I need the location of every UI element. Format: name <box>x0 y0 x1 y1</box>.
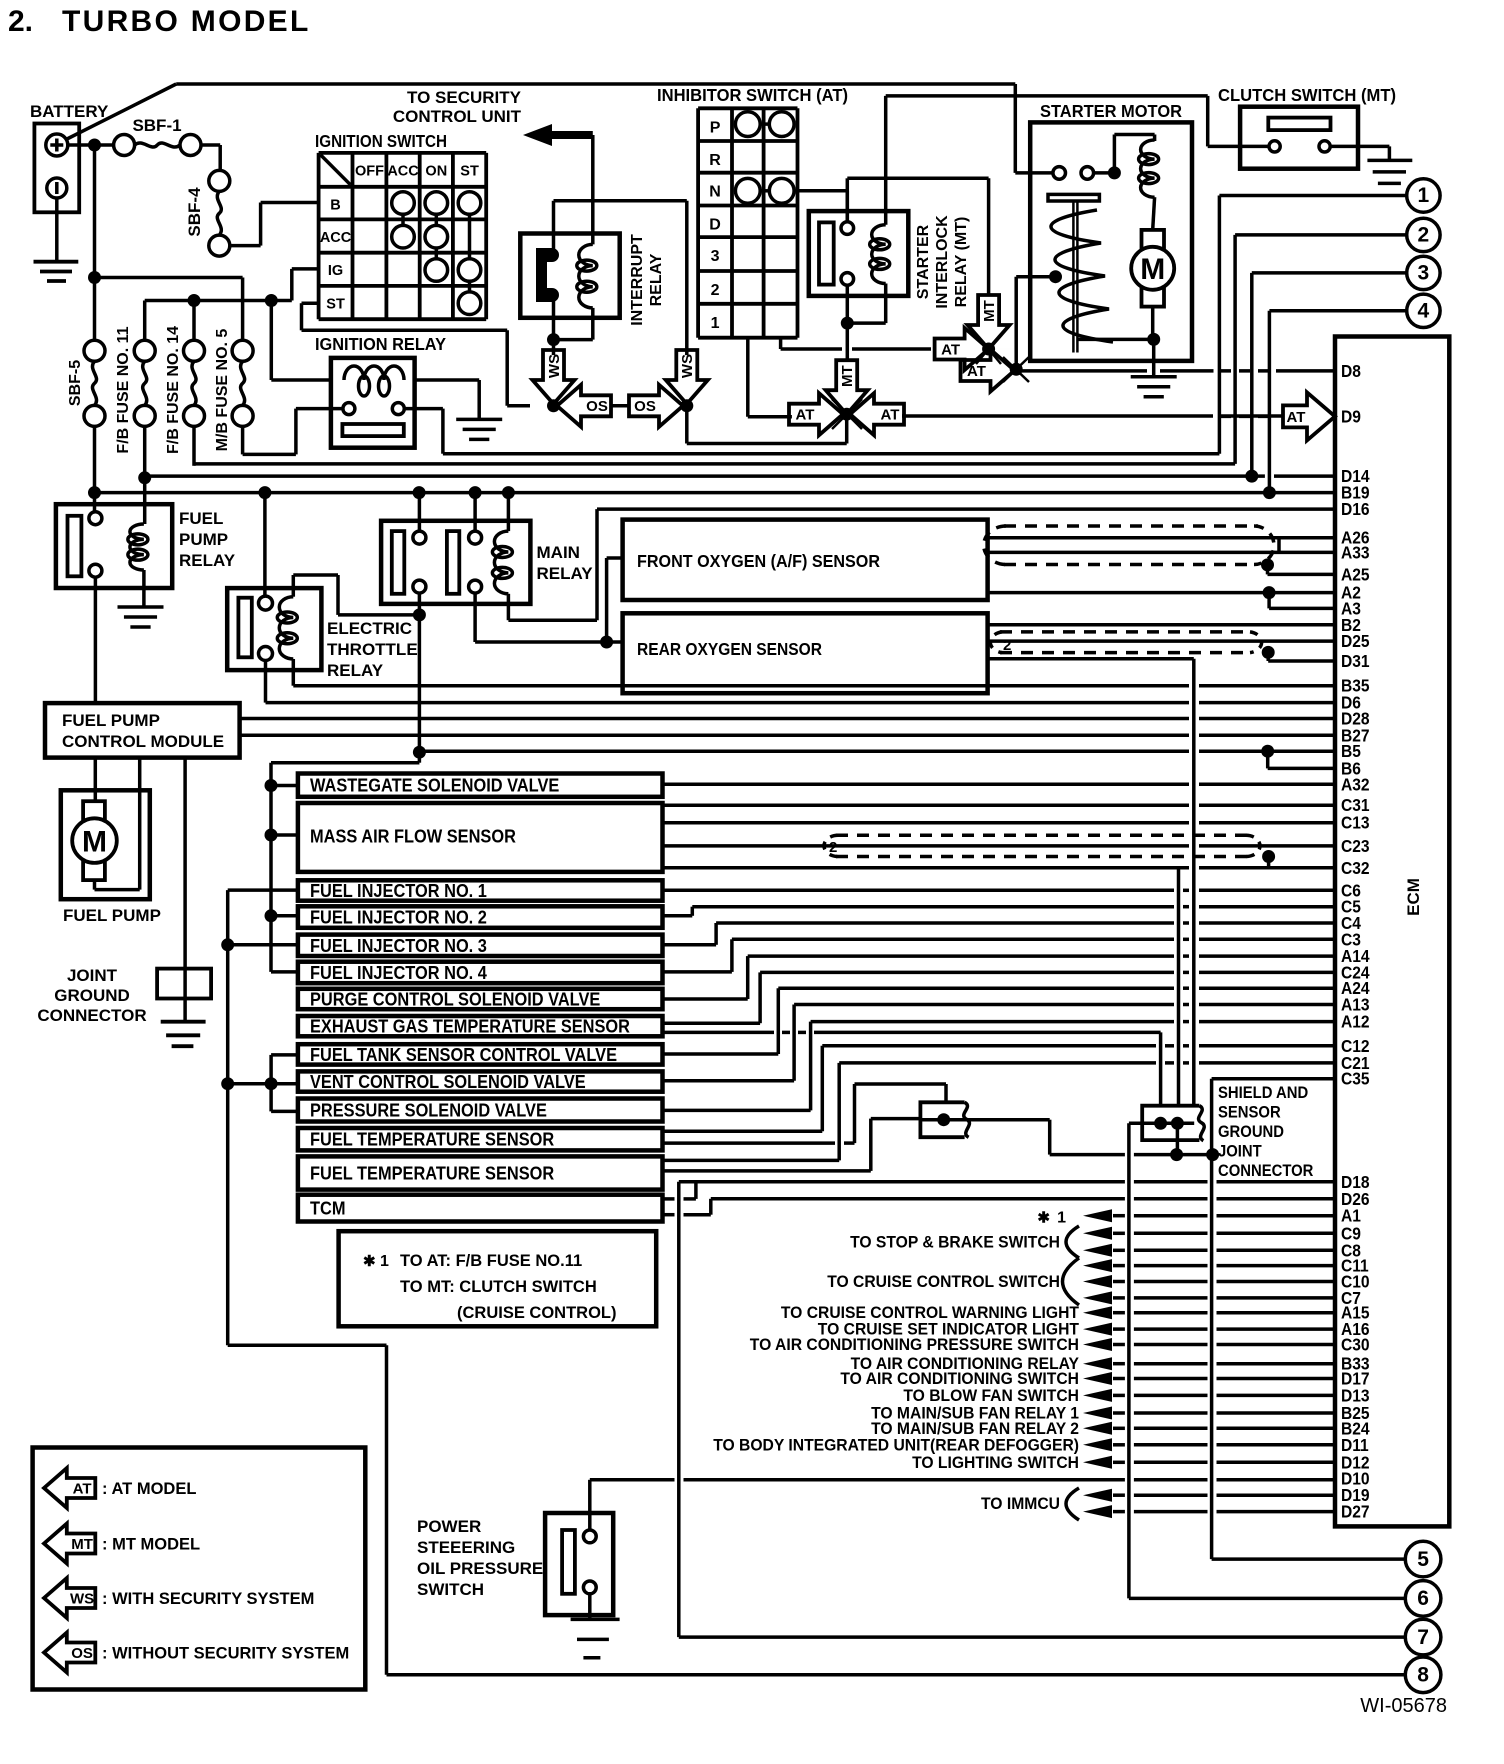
box MASS AIR FLOW SENSOR <box>298 803 663 872</box>
arrow AT at D9 <box>1283 392 1335 440</box>
electric throttle relay coil <box>279 597 293 659</box>
ECM box <box>1335 337 1449 1527</box>
svg-text:A25: A25 <box>1341 564 1370 584</box>
svg-text:M/B FUSE NO. 5: M/B FUSE NO. 5 <box>214 329 231 452</box>
wire ETR coil top to main relay c1 <box>292 575 296 597</box>
svg-text:D27: D27 <box>1341 1502 1370 1522</box>
arrow row B24 <box>1083 1422 1112 1435</box>
wire bus A <box>418 752 422 763</box>
svg-text:POWER: POWER <box>417 1517 481 1536</box>
wire B6 <box>1266 751 1270 768</box>
svg-text:4: 4 <box>1418 299 1430 322</box>
wire plunger bottom <box>1078 338 1154 342</box>
node 6 <box>1405 1581 1441 1617</box>
fuel pump <box>61 790 150 899</box>
wire SBF-4 to ignition switch B <box>230 244 261 248</box>
arrow row D13 <box>1083 1389 1112 1402</box>
box FUEL TANK SENSOR CONTROL VALVE <box>298 1044 663 1064</box>
wire right WS node down to AT cluster <box>685 406 689 444</box>
shield (rear oxygen) <box>1000 630 1252 634</box>
wire MAF to C32 and drain <box>663 866 1190 870</box>
svg-text:MASS AIR FLOW SENSOR: MASS AIR FLOW SENSOR <box>310 827 516 847</box>
svg-text:B: B <box>330 197 340 213</box>
svg-text:D16: D16 <box>1341 499 1370 519</box>
D8 dashes <box>1220 369 1276 373</box>
arrow row C10 <box>1083 1275 1112 1288</box>
svg-text:TO BODY INTEGRATED UNIT(REAR D: TO BODY INTEGRATED UNIT(REAR DEFOGGER) <box>713 1436 1079 1454</box>
svg-text:RELAY: RELAY <box>179 551 236 570</box>
main relay coil <box>494 531 508 594</box>
svg-text:D: D <box>709 217 721 234</box>
node vent <box>221 1077 234 1090</box>
wire connector2 to node 6 <box>1127 1123 1131 1598</box>
svg-text:TO CRUISE CONTROL WARNING LIGH: TO CRUISE CONTROL WARNING LIGHT <box>781 1304 1079 1322</box>
svg-text:STARTER MOTOR: STARTER MOTOR <box>1040 101 1182 121</box>
svg-text:MT: MT <box>839 365 856 387</box>
wires main relay feeds <box>418 493 422 531</box>
wire ignition switch ST row <box>302 301 319 305</box>
wire PS switch to D10 <box>588 1480 592 1530</box>
box FUEL INJECTOR NO. 4 <box>298 962 663 984</box>
svg-text:CONTROL MODULE: CONTROL MODULE <box>62 732 224 751</box>
electric throttle relay <box>227 588 321 670</box>
arrow row A1 <box>1083 1209 1112 1222</box>
svg-text:INTERRUPT: INTERRUPT <box>629 234 646 326</box>
arrow OS (left pointing) <box>557 385 611 427</box>
svg-text:RELAY: RELAY <box>648 253 665 306</box>
svg-text:AT: AT <box>941 341 960 358</box>
wire D25 <box>988 639 1335 643</box>
svg-text:SHIELD AND: SHIELD AND <box>1218 1084 1308 1102</box>
wire MAF to C31 <box>663 803 1190 807</box>
svg-text:TO AIR CONDITIONING PRESSURE S: TO AIR CONDITIONING PRESSURE SWITCH <box>750 1336 1079 1354</box>
wire battery to M/B fuse <box>95 276 243 280</box>
svg-text:P: P <box>710 119 721 136</box>
svg-text:C30: C30 <box>1341 1335 1370 1355</box>
box PURGE CONTROL SOLENOID VALVE <box>298 989 663 1009</box>
node 8 <box>1405 1657 1441 1693</box>
svg-text:2: 2 <box>1418 223 1430 246</box>
wire F/B11 to fuel pump relay coil / D14 <box>143 426 147 524</box>
arrow row C8 <box>1083 1244 1112 1257</box>
svg-text:C32: C32 <box>1341 858 1370 878</box>
wire D18 <box>679 1180 1125 1184</box>
arrow row D27 <box>1083 1505 1112 1518</box>
svg-text:M: M <box>82 826 107 859</box>
arrow to security control unit <box>523 124 593 146</box>
box TCM <box>298 1195 663 1222</box>
svg-text:CLUTCH SWITCH (MT): CLUTCH SWITCH (MT) <box>1218 85 1396 105</box>
wire ETR coil bottom to B35 <box>292 659 296 686</box>
svg-text:TO IMMCU: TO IMMCU <box>981 1495 1060 1513</box>
arrow row D11 <box>1083 1438 1112 1451</box>
svg-text:TO MAIN/SUB FAN RELAY 2: TO MAIN/SUB FAN RELAY 2 <box>871 1420 1079 1438</box>
wire inhibitor col3 to AT arrow (D1) <box>779 338 783 349</box>
svg-text:AT: AT <box>1287 409 1306 426</box>
svg-text:STARTER: STARTER <box>915 224 932 299</box>
wire bus B <box>226 890 230 1345</box>
wire relay coil to ground <box>142 570 146 607</box>
svg-text:D25: D25 <box>1341 631 1370 651</box>
box FUEL TEMPERATURE SENSOR <box>298 1128 663 1150</box>
svg-text:3: 3 <box>711 248 720 265</box>
box WASTEGATE SOLENOID VALVE <box>298 774 663 797</box>
wire injector1 to C6 <box>663 889 1175 893</box>
svg-text:FUEL INJECTOR NO. 2: FUEL INJECTOR NO. 2 <box>310 908 487 928</box>
svg-text:CONNECTOR: CONNECTOR <box>1218 1162 1313 1180</box>
svg-text:TO BLOW FAN SWITCH: TO BLOW FAN SWITCH <box>903 1387 1079 1405</box>
svg-text:OIL PRESSURE: OIL PRESSURE <box>417 1559 543 1578</box>
brace stop&brake <box>1066 1226 1079 1258</box>
svg-text:D31: D31 <box>1341 651 1370 671</box>
svg-text:A32: A32 <box>1341 774 1370 794</box>
legend arrow AT <box>44 1468 95 1508</box>
node 7 <box>1405 1619 1441 1655</box>
svg-text:EXHAUST GAS TEMPERATURE SENSOR: EXHAUST GAS TEMPERATURE SENSOR <box>310 1017 630 1037</box>
wire fuel temp2 line2 to wavy connector <box>663 1169 871 1173</box>
fuel pump relay <box>56 504 172 588</box>
svg-text:ST: ST <box>326 296 345 312</box>
svg-text:2: 2 <box>1003 637 1011 654</box>
wire ignition relay coil to ground <box>415 378 480 382</box>
svg-text:: AT MODEL: : AT MODEL <box>102 1480 196 1498</box>
wire M to ground <box>1151 307 1155 340</box>
interrupt relay <box>520 234 619 318</box>
wire exhaust 2nd to shield drain <box>663 1031 775 1035</box>
wire between OS arrows <box>611 404 629 408</box>
svg-text:8: 8 <box>1417 1664 1429 1687</box>
wire to node 1 <box>1219 194 1406 198</box>
wire battery vertical <box>93 145 97 340</box>
box FUEL INJECTOR NO. 2 <box>298 906 663 928</box>
shield (C23) <box>836 834 1248 838</box>
arrow MT down to D1 <box>968 295 1010 349</box>
svg-text:GROUND: GROUND <box>54 986 130 1005</box>
svg-text:FUEL INJECTOR NO. 1: FUEL INJECTOR NO. 1 <box>310 881 487 901</box>
svg-text:7: 7 <box>1417 1626 1429 1649</box>
box FUEL INJECTOR NO. 1 <box>298 880 663 900</box>
svg-text:SENSOR: SENSOR <box>1218 1104 1281 1122</box>
wire to ignition switch IG <box>290 269 294 301</box>
svg-text:REAR OXYGEN SENSOR: REAR OXYGEN SENSOR <box>637 639 822 659</box>
wire interlock contact top path <box>846 191 848 222</box>
svg-text:WS: WS <box>70 1590 94 1607</box>
svg-text:OS: OS <box>71 1645 93 1662</box>
svg-text:3: 3 <box>1418 261 1430 284</box>
svg-text:N: N <box>709 184 721 201</box>
svg-text:D9: D9 <box>1341 406 1361 426</box>
wire to node 4 <box>1269 309 1406 313</box>
arrow OS (right pointing) <box>629 385 683 427</box>
starter interlock coil <box>872 225 886 284</box>
wire battery+ to SBF-1 <box>68 143 114 147</box>
svg-text:C13: C13 <box>1341 813 1370 833</box>
wire D14 line <box>145 474 1265 478</box>
arrow AT right to D1 <box>935 328 989 370</box>
wire N row to MT arrow top <box>988 294 990 296</box>
wire MAF to C23 <box>663 844 1190 848</box>
svg-text:AT: AT <box>967 363 986 380</box>
main relay <box>381 521 530 604</box>
svg-text:1: 1 <box>1057 1210 1066 1227</box>
svg-text:WI-05678: WI-05678 <box>1360 1695 1447 1717</box>
svg-text:CONNECTOR: CONNECTOR <box>37 1006 146 1025</box>
node 5 <box>1405 1541 1441 1577</box>
wire main relay c2 to oxygen sensors <box>473 593 477 642</box>
wire module to B27 <box>240 734 1189 738</box>
legend arrow MT <box>44 1524 95 1564</box>
wire module to D28 <box>240 717 1189 721</box>
svg-text:INHIBITOR SWITCH (AT): INHIBITOR SWITCH (AT) <box>657 85 848 105</box>
starter plunger T-bar <box>1048 194 1099 201</box>
svg-text:AT: AT <box>73 1480 92 1497</box>
wire wavy1 out right <box>944 1118 1050 1122</box>
svg-text:ST: ST <box>460 163 479 179</box>
arrow row B25 <box>1083 1407 1112 1420</box>
svg-text:RELAY: RELAY <box>537 564 594 583</box>
svg-text:IGNITION RELAY: IGNITION RELAY <box>315 334 446 354</box>
starter return spring <box>1051 210 1113 342</box>
wire TCM stub2 <box>663 1213 675 1217</box>
arrow WS (right) <box>666 350 708 404</box>
svg-text:BATTERY: BATTERY <box>30 102 109 121</box>
svg-text:6: 6 <box>1417 1587 1429 1610</box>
svg-text:CONTROL UNIT: CONTROL UNIT <box>393 107 522 126</box>
rear oxygen sensor <box>623 613 988 693</box>
wire bus B to node 8 <box>228 1344 387 1348</box>
wire D26 <box>711 1197 1125 1201</box>
svg-text:TO MT: CLUTCH SWITCH: TO MT: CLUTCH SWITCH <box>400 1278 597 1296</box>
wire module to fuel pump M bottom <box>138 758 142 890</box>
wire main relay coil to D16 <box>507 594 511 620</box>
svg-text:: WITH SECURITY SYSTEM: : WITH SECURITY SYSTEM <box>102 1590 314 1608</box>
node injector3 <box>221 938 234 951</box>
svg-text:THROTTLE: THROTTLE <box>327 640 418 659</box>
wire contact top over to MT arrow <box>847 177 988 181</box>
node wastegate <box>265 779 278 792</box>
wire inhibitor N row to starter interlock contact <box>794 189 847 193</box>
interrupt relay coil <box>579 244 593 308</box>
arrow row A15 <box>1083 1306 1112 1319</box>
svg-text:5: 5 <box>1417 1548 1429 1571</box>
svg-text:C23: C23 <box>1341 836 1370 856</box>
svg-text:1: 1 <box>1418 184 1430 207</box>
svg-text:RELAY (MT): RELAY (MT) <box>953 217 970 308</box>
wire injector2 to C5 <box>663 914 693 918</box>
wire module to joint ground <box>183 758 187 1022</box>
svg-text:MT: MT <box>71 1536 93 1553</box>
arrow row D19 <box>1083 1489 1112 1502</box>
connector (wavy) 1 <box>920 1102 964 1137</box>
box FUEL INJECTOR NO. 3 <box>298 935 663 956</box>
wire D18 to node 7 <box>677 1182 681 1637</box>
wire to ignition relay coil <box>270 301 274 381</box>
svg-text:OFF: OFF <box>355 163 384 179</box>
svg-text:TO AIR CONDITIONING SWITCH: TO AIR CONDITIONING SWITCH <box>840 1370 1079 1388</box>
wire fuse feed bus <box>145 299 292 303</box>
svg-text:FUEL TEMPERATURE SENSOR: FUEL TEMPERATURE SENSOR <box>310 1130 554 1150</box>
svg-text:MT: MT <box>981 300 998 322</box>
wire ETR contact top to B19 <box>263 493 267 596</box>
starter contacts <box>1015 171 1053 175</box>
box PRESSURE SOLENOID VALVE <box>298 1099 663 1122</box>
svg-text:SBF-4: SBF-4 <box>185 187 204 237</box>
arrow row C7 <box>1083 1291 1112 1304</box>
svg-text:MAIN: MAIN <box>537 543 580 562</box>
svg-text:SBF-5: SBF-5 <box>67 360 84 406</box>
wire B2 <box>988 623 1335 627</box>
svg-text:AT: AT <box>796 407 815 424</box>
legend arrow OS <box>44 1633 95 1673</box>
svg-text:ECM: ECM <box>1404 878 1423 916</box>
node injector2 <box>265 909 278 922</box>
node solenoid <box>1108 166 1121 179</box>
node injector4 <box>271 970 298 974</box>
node D1 with cross <box>982 343 995 356</box>
svg-text:2: 2 <box>711 282 720 299</box>
svg-text:INTERLOCK: INTERLOCK <box>934 215 951 309</box>
wire A3 <box>1267 593 1271 609</box>
svg-text:FUEL INJECTOR NO. 4: FUEL INJECTOR NO. 4 <box>310 963 487 983</box>
svg-text:AT: AT <box>881 407 900 424</box>
node 3 <box>1407 256 1440 289</box>
wire interrupt relay contact top <box>552 201 556 250</box>
svg-text:: MT MODEL: : MT MODEL <box>102 1536 200 1554</box>
wire ignition relay contact to circle 1 line <box>404 407 443 411</box>
arrow row C30 <box>1083 1338 1112 1351</box>
wire injector3 to C4 <box>663 943 717 947</box>
svg-text:OS: OS <box>634 398 656 415</box>
svg-text:ACC: ACC <box>320 230 352 246</box>
svg-text:1: 1 <box>711 315 720 332</box>
wire connector2 internal <box>1129 1122 1194 1126</box>
svg-text:D8: D8 <box>1341 361 1361 381</box>
box FUEL TEMPERATURE SENSOR <box>298 1156 663 1189</box>
svg-text:PURGE CONTROL SOLENOID VALVE: PURGE CONTROL SOLENOID VALVE <box>310 990 600 1010</box>
node 4 <box>1407 294 1440 327</box>
wire D9 from cluster <box>902 414 1213 418</box>
box EXHAUST GAS TEMPERATURE SENSOR <box>298 1016 663 1036</box>
wire injector4 to C3 <box>663 970 732 974</box>
arrow row D17 <box>1083 1372 1112 1385</box>
wire interrupt relay contact bottom <box>552 301 556 356</box>
svg-text:TO LIGHTING SWITCH: TO LIGHTING SWITCH <box>912 1454 1079 1472</box>
svg-text:STEEERING: STEEERING <box>417 1538 515 1557</box>
wire M/B5 to ignition relay contact <box>241 426 245 454</box>
svg-text:TO AT: F/B FUSE NO.11: TO AT: F/B FUSE NO.11 <box>400 1252 582 1270</box>
svg-text:1: 1 <box>380 1253 389 1270</box>
fuel pump control module <box>45 703 240 758</box>
svg-text:JOINT: JOINT <box>67 966 118 985</box>
svg-text:WS: WS <box>679 354 696 378</box>
svg-text:✱: ✱ <box>363 1253 376 1270</box>
svg-text:C35: C35 <box>1341 1069 1370 1089</box>
ground (joint ground connector) <box>161 1020 206 1024</box>
svg-text:FRONT OXYGEN (A/F) SENSOR: FRONT OXYGEN (A/F) SENSOR <box>637 551 880 571</box>
svg-text:WASTEGATE SOLENOID VALVE: WASTEGATE SOLENOID VALVE <box>310 776 559 796</box>
wire SBF-1 to SBF-4 <box>201 143 220 147</box>
wire vent to A13 <box>663 1079 795 1083</box>
node WS/OS left <box>547 399 560 412</box>
cluster AT-MT-AT <box>826 360 868 414</box>
svg-text:A12: A12 <box>1341 1012 1370 1032</box>
wire A2 <box>988 591 1335 595</box>
wire mini bus <box>269 1055 273 1112</box>
svg-text:VENT CONTROL SOLENOID VALVE: VENT CONTROL SOLENOID VALVE <box>310 1072 586 1092</box>
wire D1 to D2 <box>989 348 1017 350</box>
node shield rear <box>1262 646 1275 659</box>
node MAF <box>265 829 278 842</box>
legend box <box>33 1448 366 1690</box>
arrow row B33 <box>1083 1357 1112 1370</box>
svg-text:SBF-1: SBF-1 <box>132 116 181 135</box>
svg-text:A33: A33 <box>1341 542 1370 562</box>
svg-text:2.: 2. <box>8 5 33 38</box>
starter interlock relay <box>809 211 909 296</box>
wire exhaust to C24 <box>663 1021 761 1025</box>
node 2 <box>1407 218 1440 251</box>
wire rear oxygen shield drain <box>988 657 1194 661</box>
svg-text:GROUND: GROUND <box>1218 1123 1284 1141</box>
arrow row C9 <box>1083 1227 1112 1240</box>
svg-text:IGNITION SWITCH: IGNITION SWITCH <box>315 131 447 151</box>
wire PS switch to ground <box>588 1594 592 1620</box>
wire to node 2 <box>1235 233 1407 237</box>
fuel pump relay coil <box>130 524 144 570</box>
wire interlock coil bottom <box>884 284 888 324</box>
wire B5 line from main relay c1 <box>419 749 1189 753</box>
svg-text:PRESSURE SOLENOID VALVE: PRESSURE SOLENOID VALVE <box>310 1101 547 1121</box>
starter solenoid coil <box>1113 135 1117 173</box>
arrow row A16 <box>1083 1323 1112 1336</box>
box VENT CONTROL SOLENOID VALVE <box>298 1071 663 1091</box>
node D2 <box>1010 363 1023 376</box>
brace cruise control switch <box>1063 1258 1080 1305</box>
wire A33 <box>988 551 1335 555</box>
svg-text:FUEL INJECTOR NO. 3: FUEL INJECTOR NO. 3 <box>310 936 487 956</box>
svg-text:ON: ON <box>425 163 447 179</box>
wire fuel temp1 B to wavy connector <box>663 1141 836 1145</box>
wire ETR contact bottom to D6 <box>264 661 268 703</box>
arrow row D12 <box>1083 1456 1112 1469</box>
node WS/OS right <box>680 399 693 412</box>
ground (fuel pump relay) <box>118 605 164 609</box>
arrow AT right to D2 <box>961 350 1015 392</box>
node shield front <box>1261 558 1274 571</box>
shield (front oxygen) <box>1004 524 1258 528</box>
svg-text:FUEL TANK SENSOR CONTROL VALVE: FUEL TANK SENSOR CONTROL VALVE <box>310 1045 617 1065</box>
svg-text:F/B FUSE NO. 11: F/B FUSE NO. 11 <box>115 326 132 453</box>
wire plunger to D2 node <box>1016 275 1055 279</box>
wire pressure to A12 <box>663 1109 811 1113</box>
wire module to fuel pump M top <box>94 758 98 802</box>
svg-text:2: 2 <box>829 839 837 856</box>
svg-text:FUEL TEMPERATURE SENSOR: FUEL TEMPERATURE SENSOR <box>310 1164 554 1184</box>
ground (PS switch) <box>571 1618 620 1622</box>
wire security arrow to interrupt relay coil <box>591 135 595 244</box>
svg-text:OS: OS <box>586 398 608 415</box>
svg-text:TCM: TCM <box>310 1199 346 1219</box>
wire main relay c1 down <box>418 593 422 752</box>
svg-text:ACC: ACC <box>387 163 419 179</box>
front oxygen sensor <box>623 520 988 600</box>
wire inhibitor col2 down to AT cluster <box>746 338 750 417</box>
node plunger <box>1049 270 1062 283</box>
D9 dashes <box>1220 415 1276 419</box>
svg-text:RELAY: RELAY <box>327 661 384 680</box>
node shield C23 <box>1262 850 1275 863</box>
wire MAF to C13 <box>663 821 1190 825</box>
